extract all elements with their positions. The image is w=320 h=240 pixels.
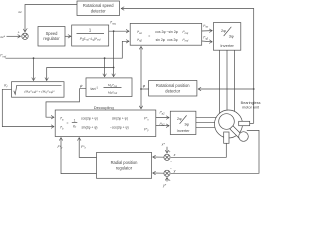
wire encoder to speed detector input	[121, 9, 254, 124]
wire suspension phase c	[196, 126, 215, 128]
svg-text:φ: φ	[143, 84, 146, 88]
svg-text:y: y	[173, 169, 176, 173]
wire x* input	[166, 147, 168, 153]
svg-text:x: x	[173, 153, 176, 157]
svg-text:i*b: i*b	[60, 126, 64, 131]
gap sensor circle	[239, 132, 249, 142]
svg-text:sin(2φ + ψ): sin(2φ + ψ)	[112, 117, 128, 121]
svg-text:Kf: Kf	[4, 84, 7, 89]
wire omega* input arrow	[7, 35, 21, 37]
block: rotation matrix cos2phi	[130, 23, 202, 45]
svg-text:1: 1	[74, 118, 76, 122]
block: decoupling	[55, 110, 156, 137]
wire speed regulator to torque block	[65, 35, 71, 37]
wire i*md rail	[6, 41, 130, 58]
block: 1/(P2(Lsd-Lq)i*md) torque-to-current	[72, 25, 109, 46]
wire y* input	[166, 178, 168, 182]
block: inverter 2 (2phi/3phi)	[170, 111, 196, 134]
svg-text:i*a: i*a	[60, 117, 64, 122]
wire 3-phase line a	[219, 50, 221, 113]
wire i*mq into tan block	[113, 68, 115, 77]
svg-text:sin(2φ + ψ): sin(2φ + ψ)	[82, 126, 98, 130]
wire x feedback from shaft	[171, 143, 227, 157]
svg-text:Inverter: Inverter	[220, 43, 234, 48]
gap sensor diagonal stub	[230, 126, 243, 139]
wire i*s-alpha to inverter1	[202, 30, 213, 32]
svg-text:1: 1	[89, 28, 92, 33]
wire i*mq rail to sqrt block	[47, 68, 114, 81]
block: radial position regulator	[97, 153, 152, 179]
svg-text:regulator: regulator	[116, 165, 133, 170]
block: rotational speed detector	[77, 1, 120, 16]
svg-text:Rotational position: Rotational position	[156, 83, 190, 88]
junction phi	[140, 88, 142, 90]
motor stator circle	[215, 110, 243, 138]
block: rotational position detector	[149, 81, 197, 97]
svg-text:3φ: 3φ	[184, 122, 189, 126]
motor shaft stub	[224, 132, 229, 143]
svg-text:2φ: 2φ	[177, 117, 182, 121]
wire position detector output phi	[141, 88, 149, 90]
motor rotor circle	[219, 114, 235, 130]
encoder rect	[239, 121, 250, 125]
svg-text:F*y: F*y	[144, 127, 149, 132]
wire decoupling output b to inverter2	[156, 125, 169, 127]
svg-text:motor unit: motor unit	[242, 106, 260, 110]
svg-text:Kf: Kf	[73, 125, 76, 130]
svg-text:Rotational speed: Rotational speed	[83, 3, 114, 8]
wire i*mq output of torque block	[109, 30, 129, 32]
svg-text:−sin 2φ: −sin 2φ	[167, 30, 179, 34]
wire i*s-beta to inverter1	[202, 40, 213, 43]
svg-text:−cos(2φ + ψ): −cos(2φ + ψ)	[110, 126, 129, 130]
svg-text:sin 2φ: sin 2φ	[156, 38, 166, 42]
svg-text:i*sβ: i*sβ	[137, 38, 142, 43]
block: speed regulator	[38, 27, 65, 47]
svg-text:2φ: 2φ	[221, 28, 226, 33]
svg-text:y*: y*	[162, 184, 167, 188]
svg-text:ω: ω	[19, 10, 22, 14]
svg-text:tan-1: tan-1	[91, 86, 99, 91]
block: inverter 1 (2phi/3phi)	[213, 23, 240, 51]
svg-text:regulator: regulator	[43, 36, 60, 41]
svg-text:i*md: i*md	[0, 54, 6, 59]
svg-text:cos(2φ + ψ): cos(2φ + ψ)	[81, 117, 98, 121]
wire SJ2 to regulator	[153, 156, 164, 158]
svg-text:i*mq: i*mq	[183, 30, 189, 35]
svg-text:F*x: F*x	[144, 117, 149, 122]
svg-text:cos 2φ: cos 2φ	[167, 38, 178, 42]
svg-text:+: +	[169, 150, 171, 154]
svg-text:+: +	[18, 30, 20, 34]
svg-text:i*sα: i*sα	[203, 24, 208, 29]
svg-text:x*: x*	[161, 143, 166, 147]
svg-text:Inverter: Inverter	[177, 129, 191, 133]
block: amplitude sqrt	[12, 82, 65, 98]
wire encoder to vertical	[250, 122, 254, 124]
svg-text:cos 2φ: cos 2φ	[155, 30, 166, 34]
svg-text:ψ: ψ	[80, 84, 83, 88]
svg-text:i*sβ: i*sβ	[203, 36, 208, 41]
wire speed detector output to SJ1	[25, 5, 77, 32]
svg-text:i*sα: i*sα	[137, 30, 142, 35]
svg-text:P2(Lsd−Lq)i*md: P2(Lsd−Lq)i*md	[80, 37, 101, 42]
svg-text:ω*: ω*	[1, 35, 6, 39]
wire i*mq down branch	[113, 31, 115, 67]
wire i*md into sqrt block	[33, 58, 35, 80]
svg-text:F*x: F*x	[81, 145, 87, 150]
svg-text:Radial position: Radial position	[111, 160, 139, 165]
wire i*md into tan block	[104, 58, 106, 76]
svg-text:i*md: i*md	[183, 38, 189, 43]
svg-text:3φ: 3φ	[229, 34, 234, 39]
junction encoder-to-position-detector	[253, 88, 255, 90]
wire sqrt output to decoupling input2	[2, 89, 54, 126]
wire 3-phase line c	[234, 50, 236, 111]
summing junction SJ3 (y)	[164, 170, 170, 176]
summing junction SJ1 (speed)	[22, 33, 28, 39]
wire decoupling output a to inverter2	[156, 117, 169, 119]
wire suspension phase b	[196, 121, 215, 123]
svg-text:−: −	[170, 160, 172, 164]
wire tan output to decoupling input1	[46, 89, 86, 118]
svg-text:F*y: F*y	[58, 145, 64, 150]
svg-text:Mdi*md: Mdi*md	[108, 91, 118, 96]
svg-text:detector: detector	[91, 8, 106, 13]
svg-text:=: =	[148, 34, 150, 38]
junction i*md to sqrt	[33, 57, 35, 59]
summing junction SJ2 (x)	[164, 154, 170, 160]
wire encoder to position detector	[198, 88, 254, 90]
block: tan-1	[86, 78, 132, 97]
svg-text:−: −	[170, 167, 172, 171]
wire F*y regulator to decoupling	[61, 138, 97, 174]
wire F*x regulator to decoupling	[79, 138, 96, 158]
wire phi up to rotation matrix	[140, 46, 142, 89]
wire phi down to decoupling	[140, 89, 142, 109]
wire y sensor feedback	[171, 130, 259, 173]
junction i*mq rail	[113, 67, 115, 69]
svg-text:(Mdi*md)² + (Mqi*mq)²: (Mdi*md)² + (Mqi*mq)²	[24, 89, 55, 94]
svg-text:−: −	[26, 27, 28, 31]
svg-text:+: +	[169, 178, 171, 182]
wire SJ3 to regulator	[153, 172, 164, 174]
svg-text:Decoupling: Decoupling	[94, 105, 114, 110]
junction i*md to tan	[104, 57, 106, 59]
svg-text:Bearingless: Bearingless	[241, 101, 261, 105]
svg-text:i*b2: i*b2	[160, 122, 166, 127]
wire suspension phase a	[196, 116, 216, 118]
svg-text:i*mq: i*mq	[110, 21, 116, 26]
junction i*mq	[113, 30, 115, 32]
svg-text:Mqi*mq: Mqi*mq	[108, 83, 118, 88]
svg-text:=: =	[67, 121, 69, 125]
svg-text:detector: detector	[165, 88, 180, 93]
svg-text:i*a2: i*a2	[160, 111, 166, 116]
svg-text:Speed: Speed	[46, 31, 59, 36]
wire 3-phase line b	[226, 50, 228, 110]
